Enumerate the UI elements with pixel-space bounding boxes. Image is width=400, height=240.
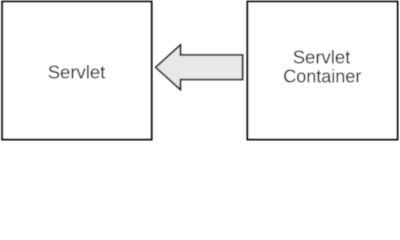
svg-text:Servlet: Servlet: [293, 46, 351, 67]
svg-text:Servlet: Servlet: [48, 62, 106, 83]
svg-text:Container: Container: [283, 66, 361, 86]
